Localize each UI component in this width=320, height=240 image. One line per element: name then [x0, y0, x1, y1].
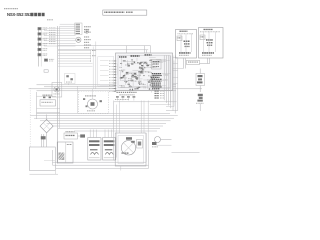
crystal X2 — [200, 35, 205, 40]
tuner box B pin row — [200, 30, 220, 33]
section label box CD MECHANISM SECTION — [103, 10, 147, 15]
wire: block right stubs — [173, 58, 184, 84]
wire: block-to-bus vertical drops — [120, 101, 149, 151]
transistor Q104 input stage — [38, 43, 48, 46]
transistor Q201 buffer pair — [65, 74, 76, 85]
jack J2 symbol — [76, 37, 81, 42]
connector row in box A — [179, 52, 191, 56]
crystal X1 — [177, 36, 182, 41]
connector channel labels — [84, 26, 91, 48]
transistor Q103 input stage — [38, 38, 48, 41]
IC U1 bottom pin rows — [117, 92, 137, 96]
fuse F1 leads — [41, 134, 46, 147]
capacitor bank C30x — [155, 91, 164, 99]
IC U6 cluster in box B — [204, 32, 216, 53]
wire: dotted service line — [29, 88, 31, 147]
IC main system board outline — [116, 53, 173, 91]
power supply box outline — [30, 147, 59, 174]
loading motor box — [115, 133, 146, 166]
wire: right gray stub — [172, 151, 200, 153]
IC U2 sub block — [152, 60, 162, 70]
IC U1 internal parts scatter — [118, 58, 171, 93]
jack J1 symbol — [85, 29, 89, 33]
tuner box B label — [204, 29, 213, 30]
page note mark — [47, 19, 53, 20]
coil L1 antenna component — [196, 69, 205, 93]
relay RY901 — [88, 138, 101, 161]
relay RY902 — [103, 138, 116, 161]
IC U5 cluster in box A — [181, 34, 192, 53]
transistor Q107 input stage — [44, 59, 54, 62]
transformer T901 — [57, 142, 73, 163]
connector row in box B — [202, 52, 214, 56]
switch S901 — [78, 134, 86, 137]
IC U3 DSP dark cluster — [151, 73, 169, 89]
connector CN101 pin rows — [75, 23, 82, 34]
wire: bottom frame lines — [53, 133, 149, 171]
IC U1 label row — [119, 54, 152, 58]
tuner box A outline — [176, 30, 197, 59]
tuner box B outline — [199, 28, 224, 59]
IC U1 left pin column — [109, 61, 116, 92]
wire: verticals right of main block — [164, 56, 175, 114]
svg-text:NSX-S52 S53: NSX-S52 S53 — [7, 12, 32, 17]
tuner box A label — [180, 31, 188, 32]
diode pair D101 — [37, 95, 57, 99]
document number text — [4, 8, 18, 9]
motor M2 inside dashed box — [78, 86, 102, 114]
wire: tuner box outputs — [184, 58, 210, 69]
wire: connector upper feed lines — [60, 24, 75, 26]
wire: left frame verticals bottom — [114, 101, 117, 161]
tuner box A pin row — [178, 32, 193, 35]
transistor Q105 input stage — [38, 48, 48, 51]
resistor network row R30x — [115, 96, 135, 100]
wire: right frame verticals — [166, 59, 178, 111]
bridge rectifier D901 diamond — [40, 115, 53, 148]
dashed optional section box — [79, 91, 109, 114]
schematic title NSX-S52/S53 — [7, 12, 45, 17]
capacitor C901 — [137, 140, 143, 149]
filter block FL1 — [37, 92, 61, 119]
transistor Q102 input stage — [38, 32, 48, 35]
wire: lower horizontal bus — [30, 113, 178, 131]
wire: long bus lines to main block — [29, 85, 203, 91]
wire: frame left of main block — [93, 42, 114, 89]
wire: main vertical bus pair — [58, 26, 60, 164]
wire: relay top leads — [90, 130, 111, 138]
transistor Q106 input stage — [38, 53, 48, 56]
headphone jack J901 — [52, 83, 62, 98]
wire: center top horizontals — [58, 46, 151, 56]
wire: stack to connector harness — [44, 28, 76, 46]
AC inlet box — [64, 131, 78, 139]
wire: left stack vertical bus — [39, 27, 42, 67]
plug P901 symbol — [152, 137, 172, 148]
transformer T2 right mid cluster — [196, 94, 204, 111]
resistor R108 — [44, 70, 48, 72]
pin label column left of connector — [49, 28, 55, 45]
wire: below-block horizontal — [114, 102, 177, 105]
wire: lower harness lines — [58, 50, 97, 67]
motor M901 — [121, 137, 135, 155]
transistor Q101 input stage — [38, 27, 48, 30]
